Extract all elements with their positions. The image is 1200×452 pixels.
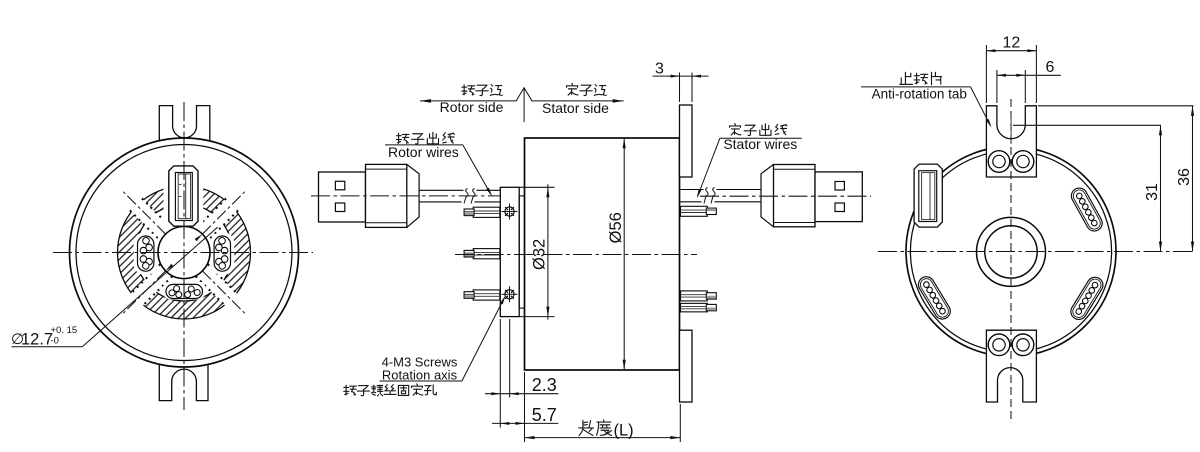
side view: stator terminal pin 1	[681, 206, 708, 216]
svg-text:(L): (L)	[614, 421, 634, 439]
svg-text:Rotation axis: Rotation axis	[382, 368, 458, 383]
side view: slip ring body	[525, 138, 680, 370]
rear view: disc inner circle	[910, 151, 1111, 352]
side view: rotor hub spacer	[519, 196, 524, 308]
label: side separator peak	[516, 88, 532, 102]
svg-text:31: 31	[1144, 183, 1161, 201]
svg-text:2.3: 2.3	[532, 375, 557, 395]
dim: 2.3	[499, 319, 501, 428]
rear view: wire slot top-right	[1069, 185, 1106, 234]
side view: stator terminal pin 3	[681, 303, 708, 312]
side view: stator cable centerline	[700, 195, 871, 197]
side view: stator terminal pin 2	[681, 291, 708, 301]
svg-text:36: 36	[1176, 168, 1193, 186]
side view: anti-rotation tab bottom (edge)	[680, 330, 693, 402]
label: stator side text	[567, 83, 607, 95]
rear view: wire slot bottom-left	[916, 274, 954, 322]
label: rotor side text	[462, 85, 502, 96]
dim: 31	[1013, 124, 1161, 126]
left view: bore diameter leader line	[12, 346, 83, 348]
left view: cutout clearances (white)	[210, 232, 234, 275]
svg-text:12: 12	[1003, 35, 1021, 52]
rear view: USB connector socket	[914, 164, 942, 227]
dim: dia 56 body	[623, 139, 625, 369]
left view: housing inner circle	[76, 145, 292, 361]
left view: left wire-hole cluster	[138, 236, 154, 271]
label: rotor side arrow	[420, 100, 516, 102]
left view: 45-degree centerlines	[202, 271, 244, 313]
side view: rotor terminal pin 3	[473, 290, 500, 300]
rear view: counterbore circle	[977, 217, 1046, 286]
rear view: bore circle	[985, 226, 1037, 278]
svg-text:6: 6	[1046, 59, 1055, 76]
side view: rotor terminal pin 2	[473, 249, 500, 259]
svg-text:Stator side: Stator side	[542, 100, 609, 116]
left view: housing outer circle	[70, 138, 299, 367]
label: rotor wires	[396, 132, 454, 144]
left view: diagonal keyway white bands	[85, 154, 283, 352]
svg-text:Ø32: Ø32	[530, 239, 548, 270]
left view: ring outer boundary	[118, 186, 251, 319]
side view: rotor cable centerline	[311, 195, 500, 197]
dim: length (L)	[679, 404, 681, 442]
left view: right wire-hole cluster	[214, 236, 230, 271]
svg-text:12.7: 12.7	[21, 331, 53, 349]
side view: rotor connector housing	[366, 164, 407, 227]
side view: M3 screw hole top	[505, 207, 514, 216]
side view: M3 screw hole bottom	[505, 290, 514, 299]
side view: stator connector housing	[761, 165, 774, 227]
left view: top fork tab	[159, 106, 210, 142]
left view: ring inner boundary	[136, 204, 233, 301]
dim: 6 (slot width)	[996, 70, 998, 103]
dim: 5.7	[524, 372, 526, 442]
rear view: horizontal centerline	[878, 251, 1194, 253]
svg-text:Rotor side: Rotor side	[440, 99, 504, 115]
left view: center bore circle	[158, 227, 210, 279]
side view: stator USB contact squares	[835, 182, 844, 191]
side view: rotor cable	[419, 189, 463, 191]
rear view: anti-rotation tab top	[986, 106, 1036, 177]
dim: 36	[1038, 105, 1194, 107]
dim: dia 32 flange	[519, 186, 554, 188]
rear view: disc outer circle	[906, 147, 1116, 357]
side view: stator cable	[680, 189, 704, 191]
svg-text:Ø56: Ø56	[607, 212, 625, 243]
side view: rotor terminal pin 1	[473, 207, 500, 217]
rear view: vertical centerline	[1010, 99, 1012, 420]
label: stator side arrow	[532, 100, 624, 102]
side view: rotor USB contact squares	[335, 181, 344, 190]
label: stator wires	[730, 124, 787, 136]
left view: hatched brush ring	[118, 186, 251, 319]
svg-text:Rotor wires: Rotor wires	[388, 144, 459, 160]
left view: horizontal centerline	[53, 252, 313, 254]
svg-text:-0: -0	[51, 336, 59, 347]
svg-text:5.7: 5.7	[532, 405, 557, 425]
rear view: tab slot center mark	[1010, 113, 1012, 144]
label: anti-rotation tab	[900, 72, 942, 84]
dim: 12 (tab width)	[985, 45, 987, 103]
side view: body centerline	[455, 254, 697, 256]
left view: bottom fork tab	[159, 364, 208, 400]
dim: 3 (tab thickness)	[679, 73, 681, 103]
side view: rotor cable break symbol	[464, 189, 468, 204]
left view: bottom wire-hole cluster	[166, 284, 203, 298]
side view: rotor flange plate	[500, 187, 519, 316]
side view: anti-rotation tab top (edge)	[680, 105, 693, 177]
side view: stator cable break symbol	[704, 188, 708, 204]
rear view: anti-rotation tab bottom	[986, 330, 1036, 402]
rear view: wire slot bottom-right	[1068, 274, 1106, 322]
svg-text:3: 3	[655, 60, 664, 77]
side view: rotor USB connector shell	[319, 172, 366, 222]
left view: keyway dotted hidden lines	[88, 156, 280, 348]
side view: stator USB connector shell	[815, 172, 862, 222]
left view: USB connector socket	[169, 166, 198, 226]
left view: vertical centerline	[183, 102, 185, 410]
svg-text:+0. 15: +0. 15	[51, 325, 78, 336]
svg-text:Anti-rotation tab: Anti-rotation tab	[872, 87, 967, 102]
